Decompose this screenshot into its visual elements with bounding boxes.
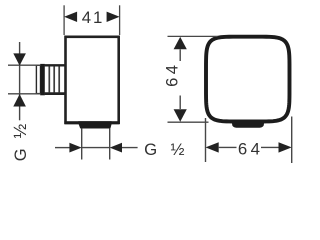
dim 64 right-side line bottom segment: [179, 96, 181, 110]
dim 64 right-side line top segment: [179, 49, 181, 61]
svg-text:½: ½: [171, 140, 185, 159]
svg-text:4: 4: [163, 65, 181, 74]
svg-text:G: G: [12, 148, 30, 161]
thread line 2: [53, 66, 55, 92]
outlet dim left arrow: [69, 143, 81, 153]
pipe nipple thread bottom edge: [45, 92, 66, 95]
thread line 1: [48, 66, 50, 92]
outlet nub (front view): [232, 121, 264, 128]
G1/2 left dim top arrow: [13, 53, 26, 65]
pipe nipple thread top edge: [45, 64, 66, 66]
dim 41 right extension line: [119, 5, 121, 35]
G1/2 left dim line: [19, 42, 21, 120]
body bottom thick edge: [64, 121, 119, 124]
svg-text:6: 6: [163, 78, 181, 87]
svg-text:½: ½: [10, 123, 30, 138]
svg-text:G: G: [144, 140, 157, 159]
outlet dim line right lead: [122, 147, 138, 149]
dim 41 left extension line: [63, 5, 65, 35]
svg-text:4: 4: [82, 8, 91, 27]
dim 64 right-side bottom tick: [168, 121, 209, 123]
dim 64 right-side top arrow: [174, 37, 187, 49]
dim 64 bottom left extension line: [205, 118, 207, 162]
dim 64 bottom right extension line: [291, 117, 293, 164]
outlet dim left extension line: [81, 128, 83, 159]
G1/2 left dim top tick: [8, 64, 41, 66]
outlet collar (side view): [79, 122, 112, 128]
dim 64 right-side bottom arrow: [174, 109, 187, 121]
svg-text:4: 4: [251, 140, 260, 159]
dim 64 bottom line left segment: [219, 146, 237, 148]
dim 64 bottom left arrow: [206, 142, 219, 152]
svg-text:6: 6: [238, 140, 247, 159]
escutcheon (front view) soft square: [206, 37, 290, 122]
outlet dim right arrow: [110, 143, 122, 153]
dim 41 right arrow: [107, 12, 120, 22]
dim 64 right-side top tick: [168, 35, 218, 37]
dim 64 bottom right arrow: [279, 142, 292, 152]
outlet dim right extension line: [109, 128, 111, 159]
G1/2 left dim bottom arrow: [13, 94, 26, 106]
pipe nipple flange: [40, 64, 45, 95]
thread line 3: [58, 66, 60, 92]
wall outlet body (side view): [66, 37, 119, 123]
dim 64 bottom line right segment: [261, 146, 279, 148]
G1/2 left dim bottom tick: [8, 93, 41, 95]
outlet dim line left lead: [55, 147, 70, 149]
outlet dim line middle: [82, 147, 110, 149]
pipe nipple end cap: [36, 65, 40, 93]
dim 41 left arrow: [64, 12, 77, 22]
svg-text:1: 1: [93, 8, 102, 27]
